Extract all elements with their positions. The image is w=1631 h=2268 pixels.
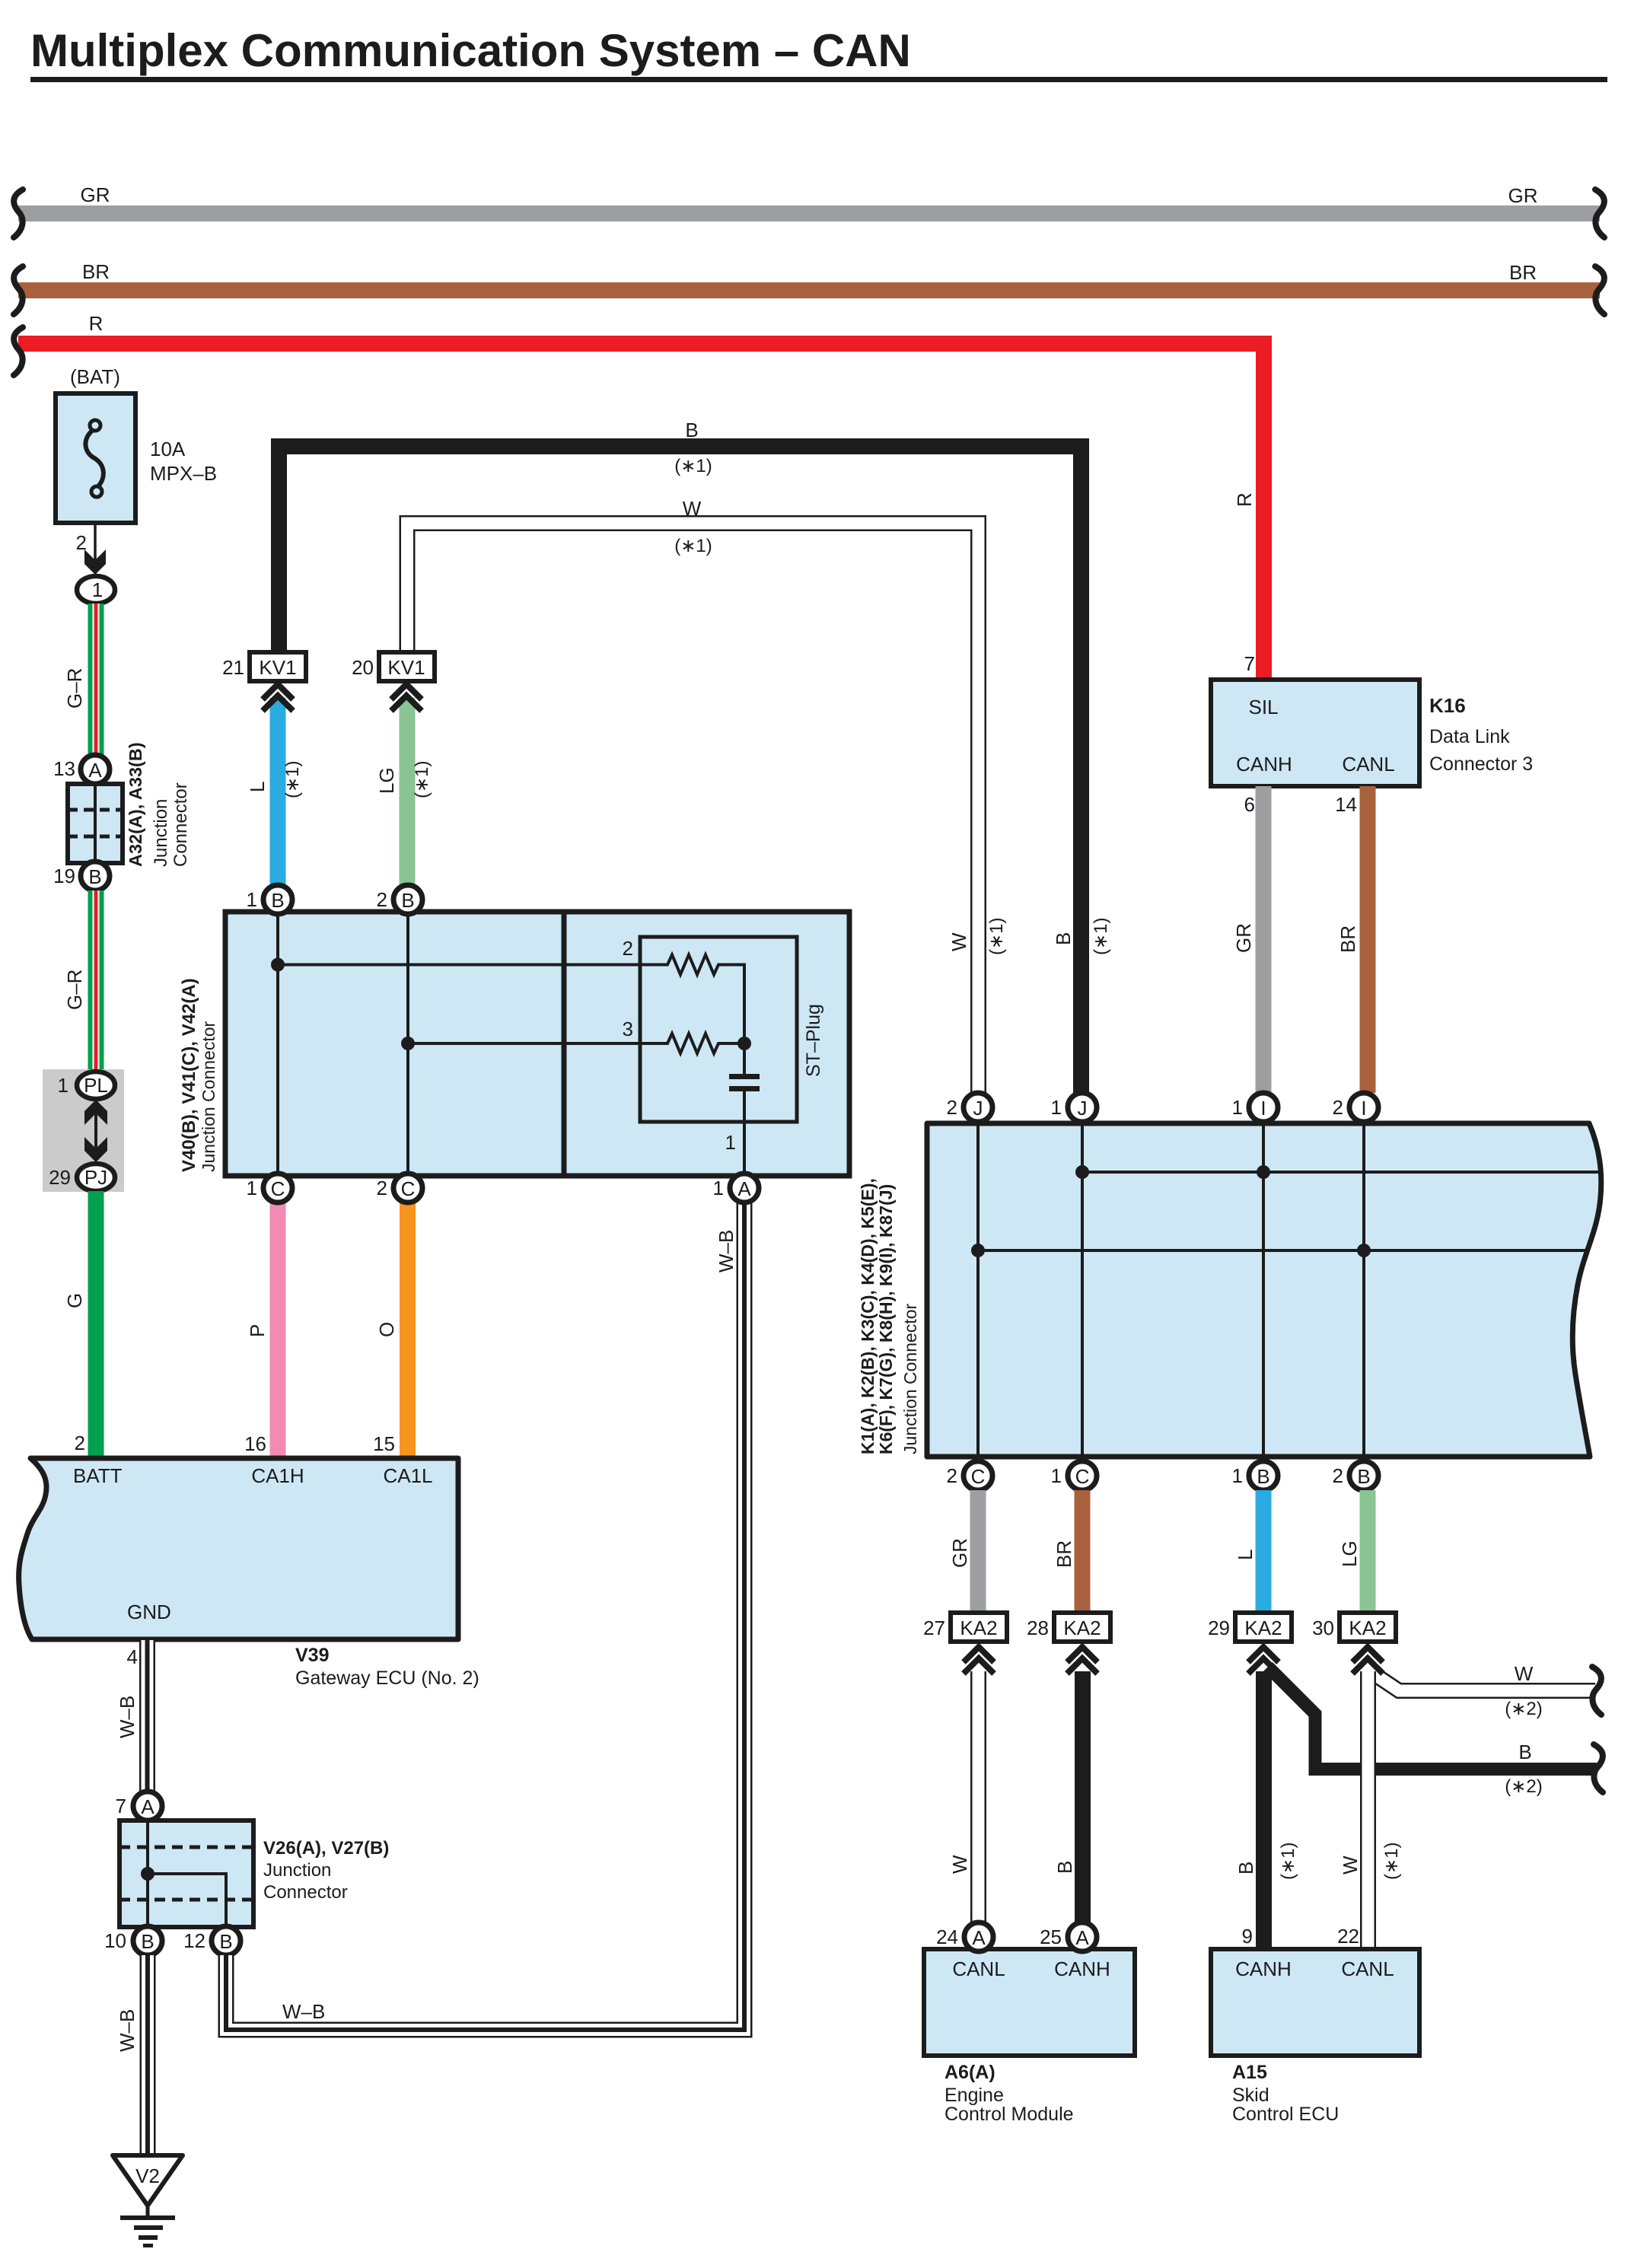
- svg-text:P: P: [246, 1324, 269, 1337]
- svg-text:R: R: [89, 312, 104, 335]
- wire L (*1): [246, 698, 303, 885]
- svg-text:W–B: W–B: [116, 2009, 139, 2052]
- svg-text:Engine: Engine: [945, 2085, 1004, 2106]
- internal wire upper with junction nodes: [1075, 1165, 1599, 1179]
- svg-text:(∗1): (∗1): [282, 761, 303, 798]
- svg-text:A: A: [737, 1177, 751, 1200]
- svg-text:Multiplex Communication System: Multiplex Communication System – CAN: [30, 25, 911, 76]
- svg-text:MPX–B: MPX–B: [150, 462, 217, 485]
- svg-text:SIL: SIL: [1248, 696, 1278, 718]
- svg-text:(∗1): (∗1): [986, 918, 1007, 955]
- svg-text:20: 20: [352, 656, 374, 679]
- svg-text:W: W: [1515, 1662, 1534, 1685]
- svg-text:W–B: W–B: [282, 2000, 325, 2023]
- pin 2 C bottom: [947, 1461, 992, 1490]
- svg-text:GR: GR: [81, 183, 110, 206]
- svg-text:BR: BR: [1053, 1540, 1075, 1568]
- pin 25 A of A6: [1040, 1922, 1097, 1951]
- svg-text:W–B: W–B: [715, 1230, 737, 1273]
- pin 1 C bottom: [1051, 1461, 1097, 1490]
- svg-text:LG: LG: [375, 767, 398, 794]
- svg-text:(∗2): (∗2): [1505, 1699, 1542, 1719]
- bus GR (top gray bus wire): [14, 183, 1604, 237]
- svg-text:W: W: [948, 1855, 971, 1874]
- svg-text:13: 13: [53, 757, 75, 780]
- svg-text:Connector: Connector: [170, 782, 191, 867]
- svg-text:C: C: [401, 1177, 416, 1200]
- svg-text:B: B: [271, 889, 284, 912]
- label B (*1) on wire to 1J: [1052, 918, 1111, 955]
- svg-text:29: 29: [49, 1166, 71, 1189]
- wire W-B to ground V2: [116, 1955, 148, 2158]
- svg-text:LG: LG: [1338, 1540, 1361, 1567]
- svg-text:25: 25: [1040, 1926, 1062, 1948]
- wire W from 30 KA2 to A15 CANL pin 22: [1337, 1671, 1402, 1949]
- pin 2 B bottom: [1333, 1461, 1378, 1490]
- chevron below KA2 at x=1797: [1352, 1647, 1383, 1674]
- svg-text:B: B: [401, 889, 414, 912]
- svg-text:J: J: [973, 1097, 983, 1120]
- svg-text:CA1H: CA1H: [251, 1464, 304, 1487]
- svg-text:C: C: [971, 1465, 986, 1488]
- svg-text:9: 9: [1242, 1925, 1253, 1948]
- chevron below 21 KV1: [263, 684, 293, 711]
- svg-text:K1(A), K2(B), K3(C), K4(D), K5: K1(A), K2(B), K3(C), K4(D), K5(E),: [858, 1178, 878, 1454]
- wire W from 27 KA2 to A6 CANL pin 24: [948, 1671, 979, 1923]
- svg-text:Skid: Skid: [1232, 2085, 1269, 2106]
- svg-text:L: L: [246, 782, 269, 792]
- svg-text:A: A: [972, 1926, 986, 1949]
- pin 1 I: [1232, 1093, 1278, 1122]
- svg-text:(∗1): (∗1): [1381, 1843, 1402, 1880]
- internal wire lower with junction nodes: [971, 1244, 1587, 1257]
- svg-text:Junction Connector: Junction Connector: [199, 1021, 218, 1172]
- svg-text:19: 19: [53, 865, 75, 887]
- svg-text:CANL: CANL: [952, 1957, 1005, 1980]
- svg-text:ST–Plug: ST–Plug: [803, 1004, 824, 1077]
- title Multiplex Communication System - CAN: [30, 25, 1607, 82]
- wire LG from 2B to 30 KA2: [1338, 1490, 1376, 1613]
- svg-text:Junction Connector: Junction Connector: [900, 1303, 920, 1454]
- pin 10 B of V26: [104, 1926, 162, 1955]
- ground V2: [113, 2155, 183, 2247]
- svg-text:A: A: [141, 1795, 154, 1818]
- svg-text:7: 7: [1244, 652, 1255, 675]
- junction connector A32(A), A33(B): [68, 742, 191, 867]
- junction connector K1(A)-K87(J): [858, 1123, 1601, 1457]
- svg-text:2: 2: [377, 1177, 387, 1199]
- svg-text:1: 1: [247, 888, 257, 911]
- svg-text:A32(A), A33(B): A32(A), A33(B): [126, 742, 145, 867]
- connector 20 KV1: [352, 652, 435, 681]
- svg-text:(BAT): (BAT): [70, 365, 120, 388]
- svg-text:3: 3: [623, 1018, 633, 1040]
- svg-text:1: 1: [725, 1131, 736, 1154]
- pin 2 J: [947, 1093, 992, 1122]
- wire LG (*1): [375, 698, 432, 885]
- pin 2 C of V40: [377, 1174, 422, 1202]
- svg-text:2: 2: [377, 888, 387, 911]
- pin 1 A of ST-plug: [713, 1174, 759, 1202]
- svg-text:B: B: [1052, 932, 1075, 945]
- svg-text:1: 1: [58, 1074, 68, 1097]
- resistor pin 2: [623, 937, 744, 1037]
- svg-text:GR: GR: [1232, 923, 1255, 953]
- svg-text:PJ: PJ: [84, 1166, 107, 1189]
- svg-text:G–R: G–R: [63, 970, 86, 1010]
- svg-text:C: C: [1075, 1465, 1090, 1488]
- svg-text:BATT: BATT: [73, 1464, 123, 1487]
- svg-text:1: 1: [713, 1177, 724, 1199]
- svg-text:KV1: KV1: [259, 656, 296, 679]
- pin 13 A of A32: [53, 755, 110, 784]
- svg-text:16: 16: [244, 1432, 266, 1455]
- svg-text:2: 2: [75, 1432, 85, 1454]
- svg-text:I: I: [1361, 1097, 1366, 1120]
- connector 21 KV1: [222, 652, 306, 681]
- chevron below KA2 at x=1422: [1067, 1647, 1097, 1674]
- svg-text:22: 22: [1337, 1925, 1359, 1948]
- svg-text:(∗1): (∗1): [674, 456, 712, 476]
- connector 30 KA2: [1312, 1613, 1396, 1642]
- svg-text:W: W: [683, 497, 702, 520]
- svg-text:1: 1: [1232, 1096, 1243, 1119]
- svg-text:CANH: CANH: [1236, 753, 1292, 776]
- pin 7 A of V26: [116, 1792, 162, 1820]
- internal wire row 3 with junction node: [401, 1037, 640, 1050]
- pin 19 B of A32: [53, 862, 110, 890]
- wire branch W (*2) to right edge: [1370, 1662, 1601, 1719]
- double arrow between PL and PJ: [84, 1100, 107, 1162]
- svg-text:B: B: [141, 1930, 154, 1953]
- svg-text:14: 14: [1335, 793, 1357, 816]
- svg-text:(∗2): (∗2): [1505, 1776, 1542, 1797]
- gateway ECU V39 box: [19, 1458, 479, 1689]
- svg-text:B: B: [1257, 1465, 1269, 1488]
- wire B from 29 KA2 to A15 CANH pin 9: [1234, 1671, 1298, 1949]
- svg-text:15: 15: [373, 1432, 395, 1455]
- pin 1 C of V40: [247, 1174, 292, 1202]
- pin 24 A of A6: [936, 1922, 993, 1951]
- engine control module A6(A): [924, 1949, 1135, 2125]
- svg-text:Junction: Junction: [263, 1860, 331, 1881]
- svg-text:KV1: KV1: [387, 656, 425, 679]
- svg-text:7: 7: [116, 1795, 126, 1817]
- svg-text:2: 2: [947, 1464, 957, 1487]
- pin 2 B of V40: [377, 885, 422, 914]
- svg-text:W: W: [948, 932, 970, 951]
- svg-text:1: 1: [247, 1177, 257, 1199]
- wire GR from 2C to 27 KA2: [948, 1490, 986, 1613]
- svg-text:L: L: [1234, 1550, 1257, 1560]
- wire W-B return from pin 12 B to ST-plug pin 1 A: [226, 1202, 744, 2030]
- svg-text:K6(F), K7(G), K8(H), K9(I), K8: K6(F), K7(G), K8(H), K9(I), K87(J): [876, 1184, 896, 1454]
- svg-text:KA2: KA2: [1244, 1617, 1282, 1639]
- svg-text:CANL: CANL: [1342, 753, 1394, 776]
- svg-text:GR: GR: [948, 1538, 971, 1568]
- connector 27 KA2: [923, 1613, 1007, 1642]
- svg-text:27: 27: [923, 1617, 945, 1639]
- svg-text:30: 30: [1312, 1617, 1334, 1639]
- svg-text:2: 2: [1333, 1464, 1343, 1487]
- wire G to BATT: [63, 1191, 104, 1457]
- svg-text:W–B: W–B: [116, 1696, 139, 1738]
- wire BR from K16 CANL pin 14 to 2I: [1335, 786, 1375, 1093]
- wire O from 2C to CA1L: [373, 1202, 416, 1457]
- connector 28 KA2: [1027, 1613, 1110, 1642]
- svg-text:J: J: [1078, 1097, 1088, 1120]
- wire W (*1) from KV1 20 to junction connector 2J: [407, 497, 979, 1093]
- wire G-R lower segment: [63, 890, 104, 1071]
- pin 2 I: [1333, 1093, 1378, 1122]
- svg-text:29: 29: [1208, 1617, 1230, 1639]
- arrow into connector 1: [84, 549, 106, 575]
- wire BR from 1C to 28 KA2: [1053, 1490, 1091, 1613]
- data link connector 3 K16: [1211, 680, 1533, 786]
- svg-text:Control Module: Control Module: [945, 2104, 1074, 2125]
- svg-text:A: A: [1075, 1926, 1089, 1949]
- junction connector V40(B), V41(C), V42(A): [179, 912, 849, 1176]
- svg-text:1: 1: [92, 578, 103, 601]
- svg-text:10: 10: [104, 1929, 126, 1952]
- svg-text:BR: BR: [1336, 925, 1359, 953]
- svg-text:G–R: G–R: [63, 668, 86, 709]
- svg-text:C: C: [271, 1177, 285, 1200]
- connector PL/PJ (gray block): [43, 1069, 124, 1192]
- svg-text:CANH: CANH: [1235, 1957, 1292, 1980]
- svg-text:B: B: [1053, 1861, 1076, 1874]
- svg-text:6: 6: [1244, 793, 1255, 816]
- svg-text:A6(A): A6(A): [945, 2062, 995, 2083]
- svg-text:B: B: [1518, 1741, 1531, 1763]
- svg-text:A: A: [88, 759, 102, 782]
- svg-text:V26(A), V27(B): V26(A), V27(B): [263, 1838, 389, 1859]
- wire from fuse pin 2: [76, 523, 95, 571]
- connector 29 KA2: [1208, 1613, 1292, 1642]
- svg-text:B: B: [685, 419, 698, 441]
- wire P from 1C to CA1H: [244, 1202, 285, 1457]
- svg-text:KA2: KA2: [1063, 1617, 1101, 1639]
- svg-text:W: W: [1339, 1855, 1362, 1875]
- wire branch B (*2) to right edge: [1268, 1667, 1603, 1797]
- svg-text:O: O: [375, 1322, 398, 1337]
- wire G-R upper segment: [63, 604, 104, 760]
- svg-text:1: 1: [1051, 1096, 1062, 1119]
- capacitor in ST-plug: [725, 1043, 760, 1174]
- svg-text:KA2: KA2: [960, 1617, 997, 1639]
- svg-text:R: R: [1233, 492, 1256, 507]
- svg-text:B: B: [1357, 1465, 1370, 1488]
- junction connector V26(A), V27(B): [119, 1820, 389, 1927]
- svg-text:B: B: [1234, 1862, 1257, 1875]
- ST-Plug box: [640, 937, 824, 1122]
- chevron below KA2 at x=1286: [964, 1647, 994, 1674]
- bus BR (brown bus wire): [14, 260, 1604, 314]
- svg-text:GND: GND: [127, 1601, 171, 1623]
- svg-text:(∗1): (∗1): [1278, 1843, 1298, 1880]
- svg-text:CA1L: CA1L: [383, 1464, 432, 1487]
- svg-text:Data Link: Data Link: [1429, 726, 1510, 747]
- svg-text:24: 24: [936, 1926, 958, 1948]
- chevron below 20 KV1: [391, 684, 422, 711]
- connector node 1: [77, 576, 115, 604]
- wire B (*1) from KV1 21 to junction connector 1J: [279, 419, 1081, 1093]
- chevron below KA2 at x=1660: [1248, 1647, 1279, 1674]
- svg-text:(∗1): (∗1): [412, 761, 432, 798]
- resistor pin 3: [623, 1018, 751, 1053]
- svg-text:V40(B), V41(C), V42(A): V40(B), V41(C), V42(A): [179, 978, 199, 1172]
- connector node PJ pin 29: [49, 1164, 115, 1191]
- connector node PL pin 1: [58, 1072, 115, 1099]
- svg-text:(∗1): (∗1): [1091, 918, 1111, 955]
- svg-text:A15: A15: [1232, 2062, 1267, 2083]
- svg-text:Connector: Connector: [263, 1882, 348, 1903]
- wire L from 1B to 29 KA2: [1234, 1490, 1272, 1613]
- pin 1 B of V40: [247, 885, 292, 914]
- wire W-B from GND pin 4: [116, 1640, 148, 1793]
- pin 12 B of V27: [183, 1926, 241, 1955]
- svg-text:V2: V2: [135, 2164, 160, 2187]
- svg-text:12: 12: [183, 1929, 205, 1952]
- svg-text:1: 1: [1051, 1464, 1062, 1487]
- svg-text:GR: GR: [1508, 184, 1538, 207]
- wire B from 28 KA2 to A6 CANH pin 25: [1053, 1671, 1083, 1923]
- svg-text:10A: 10A: [150, 438, 186, 460]
- svg-text:CANH: CANH: [1054, 1957, 1110, 1980]
- internal wire row 2 with junction node: [271, 958, 640, 972]
- svg-text:2: 2: [623, 937, 633, 960]
- svg-text:V39: V39: [295, 1645, 329, 1666]
- svg-text:Control ECU: Control ECU: [1232, 2104, 1339, 2125]
- svg-text:I: I: [1260, 1097, 1266, 1120]
- skid control ECU A15: [1211, 1949, 1419, 2125]
- svg-text:Gateway ECU (No. 2): Gateway ECU (No. 2): [295, 1668, 479, 1689]
- svg-text:B: B: [219, 1930, 232, 1953]
- svg-text:2: 2: [947, 1096, 957, 1119]
- svg-text:G: G: [63, 1293, 86, 1308]
- svg-text:28: 28: [1027, 1617, 1049, 1639]
- svg-text:4: 4: [127, 1645, 138, 1668]
- svg-text:CANL: CANL: [1341, 1957, 1394, 1980]
- pin 1 B bottom: [1232, 1461, 1278, 1490]
- svg-text:1: 1: [1232, 1464, 1243, 1487]
- svg-text:B: B: [88, 865, 101, 888]
- svg-text:(∗1): (∗1): [674, 536, 712, 556]
- svg-text:BR: BR: [82, 260, 110, 283]
- svg-text:K16: K16: [1429, 694, 1466, 717]
- fuse 10A MPX-B: [56, 365, 217, 523]
- svg-text:PL: PL: [84, 1074, 108, 1097]
- svg-text:2: 2: [1333, 1096, 1343, 1119]
- pin 1 J: [1051, 1093, 1097, 1122]
- wire GR from K16 CANH pin 6 to 1I: [1232, 786, 1272, 1093]
- svg-text:Junction: Junction: [151, 799, 171, 867]
- svg-text:21: 21: [222, 656, 244, 679]
- svg-text:BR: BR: [1509, 261, 1537, 284]
- bus R (red bus wire, turns down to K16 SIL): [14, 312, 1264, 680]
- label W (*1) on wire to 2J: [948, 918, 1007, 955]
- svg-text:Connector 3: Connector 3: [1429, 753, 1533, 775]
- svg-text:KA2: KA2: [1349, 1617, 1386, 1639]
